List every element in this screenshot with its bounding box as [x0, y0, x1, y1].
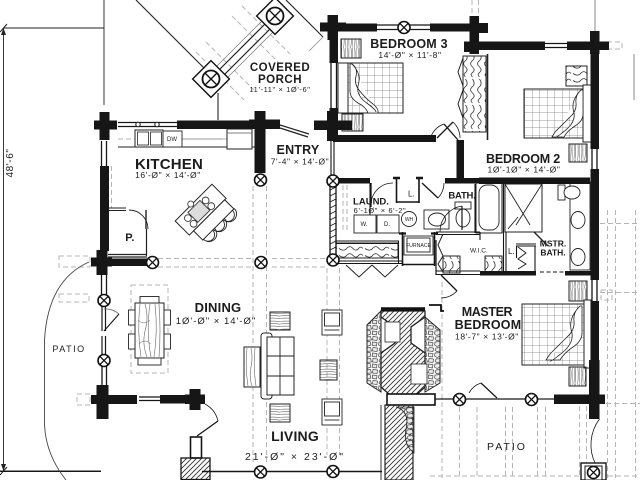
svg-text:D.: D. — [384, 222, 390, 228]
svg-text:WH: WH — [405, 217, 414, 223]
svg-text:L.: L. — [408, 190, 415, 199]
svg-text:21'-Ø" × 23'-Ø": 21'-Ø" × 23'-Ø" — [245, 451, 345, 463]
svg-text:DINING: DINING — [195, 300, 242, 315]
svg-text:1Ø'-Ø" × 14'-Ø": 1Ø'-Ø" × 14'-Ø" — [176, 316, 257, 327]
svg-text:MASTER: MASTER — [462, 305, 513, 319]
svg-text:PATIO: PATIO — [487, 441, 527, 453]
svg-text:1Ø'-1Ø" × 14'-Ø": 1Ø'-1Ø" × 14'-Ø" — [488, 165, 561, 175]
svg-text:LIVING: LIVING — [271, 428, 319, 444]
svg-text:18'-7" × 13'-Ø": 18'-7" × 13'-Ø" — [455, 332, 519, 342]
svg-text:BATH.: BATH. — [540, 248, 565, 258]
svg-text:W.: W. — [361, 222, 368, 228]
svg-text:11'-11" × 1Ø'-6": 11'-11" × 1Ø'-6" — [249, 85, 310, 94]
svg-text:PATIO: PATIO — [52, 344, 85, 354]
svg-text:7'-4" × 14'-Ø": 7'-4" × 14'-Ø" — [271, 157, 330, 167]
svg-text:16'-Ø" × 14'-Ø": 16'-Ø" × 14'-Ø" — [135, 170, 201, 180]
svg-text:W.I.C.: W.I.C. — [470, 248, 488, 255]
svg-text:BEDROOM 3: BEDROOM 3 — [370, 37, 448, 51]
svg-text:L.: L. — [508, 247, 515, 256]
svg-text:DW: DW — [167, 137, 177, 143]
svg-text:ENTRY: ENTRY — [277, 143, 320, 157]
svg-text:6'-1Ø" × 6'-2": 6'-1Ø" × 6'-2" — [354, 206, 407, 215]
svg-text:COVERED: COVERED — [250, 62, 310, 74]
svg-text:P.: P. — [125, 232, 134, 244]
svg-text:BATH.: BATH. — [448, 191, 475, 202]
svg-text:48'-6": 48'-6" — [5, 148, 16, 177]
svg-text:BEDROOM: BEDROOM — [455, 318, 522, 332]
svg-text:FURNACE: FURNACE — [406, 243, 432, 249]
svg-text:14'-Ø" × 11'-8": 14'-Ø" × 11'-8" — [378, 50, 441, 60]
